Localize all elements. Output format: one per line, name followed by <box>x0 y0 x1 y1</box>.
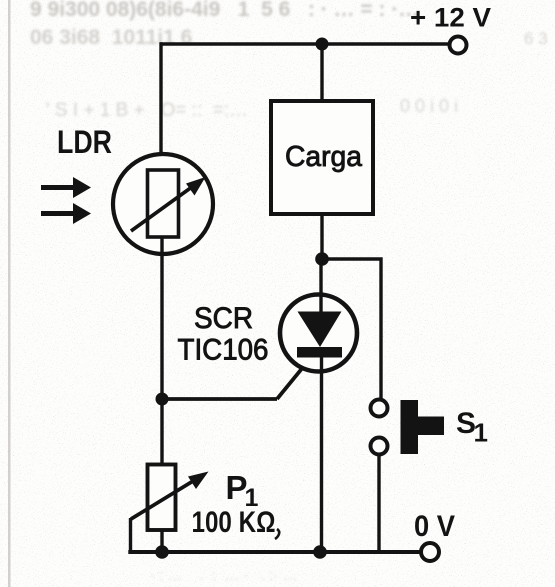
SCR triangle <box>298 312 342 348</box>
light arrow lower <box>41 203 91 224</box>
wire: junction down to P1 <box>160 399 163 467</box>
wire: cathode down to bottom rail <box>320 357 323 552</box>
label P1 <box>226 469 259 512</box>
label S1 <box>456 407 488 448</box>
junction node anode <box>315 252 329 266</box>
wire: left vertical from rail to LDR <box>159 42 162 171</box>
wire: gate diagonal to SCR <box>277 355 313 399</box>
wire: +12V top rail <box>160 42 449 45</box>
S1 button actuator <box>401 400 445 454</box>
stray comma mark after ohm <box>275 529 279 539</box>
svg-text:LDR: LDR <box>57 124 112 160</box>
junction node gate <box>156 393 169 406</box>
left scan border line <box>8 0 11 587</box>
wire: branch to S1 (right then down) <box>322 259 381 400</box>
SCR circle U1 <box>280 295 357 372</box>
S1 upper contact <box>371 400 388 417</box>
wire: S1 bottom to rail <box>377 454 380 552</box>
junction node SCR/rail <box>313 545 327 559</box>
wire: bottom 0V rail <box>128 550 421 554</box>
wire: LDR bottom down to gate junction <box>160 237 163 400</box>
svg-text:Carga: Carga <box>285 141 363 173</box>
svg-text:0 0 i 0 i: 0 0 i 0 i <box>400 96 458 116</box>
potentiometer P1 body <box>148 465 176 531</box>
wire: gate horizontal run <box>162 397 277 401</box>
svg-text:0 V: 0 V <box>414 510 455 543</box>
svg-text:100 KΩ: 100 KΩ <box>192 506 276 539</box>
svg-text:TIC106: TIC106 <box>178 334 269 367</box>
svg-text:· : … . : … · . :· …: · : … . : … · . :· … <box>150 567 298 584</box>
svg-text:' S I + 1 B + O= :: =:…: ' S I + 1 B + O= :: =:… <box>46 100 248 121</box>
LDR resistor body <box>148 170 179 237</box>
S1 lower contact <box>371 438 388 455</box>
svg-text:SCR: SCR <box>194 302 253 335</box>
wire: wiper bend to rail <box>129 518 132 552</box>
wire: P1 bottom to rail <box>160 530 163 552</box>
terminal +12V <box>450 37 467 54</box>
LDR circle <box>113 154 213 254</box>
wire: Carga bottom to SCR anode junction <box>320 214 323 259</box>
wire: anode into SCR <box>319 259 322 313</box>
junction node P1/rail <box>155 545 169 559</box>
svg-text:+ 12 V: + 12 V <box>410 3 491 33</box>
Carga box <box>271 101 373 214</box>
wire: top junction down to Carga box <box>320 44 323 101</box>
svg-text:9 9i300 08)6(8i6-4i9 1 5 6: 9 9i300 08)6(8i6-4i9 1 5 6 : · … = : ·… <box>30 0 419 21</box>
svg-text:1: 1 <box>474 418 488 448</box>
light arrow upper <box>41 177 91 198</box>
junction node at top rail <box>316 38 329 51</box>
terminal 0V <box>421 543 439 561</box>
LDR variable arrow <box>131 177 206 231</box>
P1 wiper arrow <box>131 472 209 520</box>
svg-text:6 3: 6 3 <box>524 29 548 48</box>
SCR cathode bar <box>297 347 342 358</box>
